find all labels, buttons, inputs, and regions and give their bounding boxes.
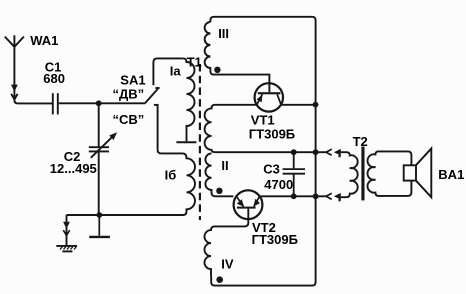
- earth arrow: [63, 222, 70, 236]
- speaker BA1: [404, 149, 432, 198]
- wire C1 to switch pole: [59, 102, 145, 104]
- svg-text:WA1: WA1: [30, 33, 58, 48]
- node A junction after C1: [96, 100, 102, 106]
- switch SA1 lever: [145, 88, 160, 103]
- node rail lower: [313, 193, 319, 199]
- svg-text:“СВ”: “СВ”: [113, 112, 145, 127]
- wire VT2 right lead: [261, 195, 327, 197]
- coil Ia (T1 winding Ia): [183, 58, 195, 141]
- transistor VT1: [255, 83, 283, 111]
- coil IV (T1 winding IV) with wire to VT2 base: [205, 209, 249, 277]
- antenna WA1: [5, 35, 52, 103]
- svg-text:C3: C3: [263, 162, 280, 177]
- T1 core (dashed): [199, 64, 201, 220]
- frame: top wire, right rail, bottom wire: [210, 17, 315, 286]
- svg-text:680: 680: [43, 71, 65, 86]
- node VT1 collector on rail: [313, 102, 319, 108]
- coil II upper half with wire to VT1 emitter: [205, 105, 327, 152]
- svg-text:ГТ309Б: ГТ309Б: [252, 232, 298, 247]
- wire DV contact to coil Ia top: [153, 58, 182, 85]
- capacitor C2 variable: [89, 103, 117, 215]
- svg-text:II: II: [221, 158, 228, 173]
- wire VT1 collector to rail: [281, 104, 316, 106]
- node C3 top: [291, 149, 297, 155]
- T2 secondary winding and loop to speaker: [368, 151, 412, 196]
- node B bottom junction: [96, 212, 102, 218]
- node C3 bottom: [291, 193, 297, 199]
- coil Ib (T1 winding Ib): [99, 106, 195, 215]
- polarity dot winding III: [214, 67, 220, 73]
- svg-text:IV: IV: [221, 257, 234, 272]
- capacitor C3: [283, 152, 305, 196]
- svg-text:BA1: BA1: [438, 167, 464, 182]
- svg-text:Ia: Ia: [170, 63, 182, 78]
- chassis ground bar: [89, 215, 110, 237]
- connector plug upper: [334, 149, 341, 157]
- svg-text:III: III: [218, 26, 229, 41]
- coil II lower half (T1 winding II): [205, 153, 233, 196]
- svg-text:12...495: 12...495: [50, 161, 97, 176]
- SV contact tick: [154, 104, 159, 106]
- connector socket lower: [326, 193, 332, 199]
- svg-text:SA1: SA1: [120, 72, 145, 87]
- ground earth symbol: [56, 246, 77, 252]
- connector plug lower: [334, 193, 341, 201]
- transistor VT2: [234, 190, 263, 219]
- svg-text:ГТ309Б: ГТ309Б: [249, 127, 295, 142]
- T2 primary winding: [341, 152, 358, 197]
- T2 core: [361, 147, 364, 201]
- connector socket upper: [326, 149, 332, 155]
- polarity dot winding II: [216, 188, 222, 194]
- svg-text:VT1: VT1: [251, 113, 275, 128]
- polarity dot winding IV: [216, 276, 223, 283]
- tap chassis bar below Ia: [176, 141, 196, 143]
- coil III (T1 winding III): [205, 22, 270, 92]
- svg-text:T2: T2: [353, 134, 368, 149]
- svg-text:“ДВ”: “ДВ”: [113, 86, 145, 101]
- svg-text:4700: 4700: [264, 177, 293, 192]
- node rail mid: [313, 149, 319, 155]
- wire junction to earth: [67, 215, 100, 245]
- capacitor C1: [53, 93, 58, 114]
- svg-text:Iб: Iб: [165, 168, 177, 183]
